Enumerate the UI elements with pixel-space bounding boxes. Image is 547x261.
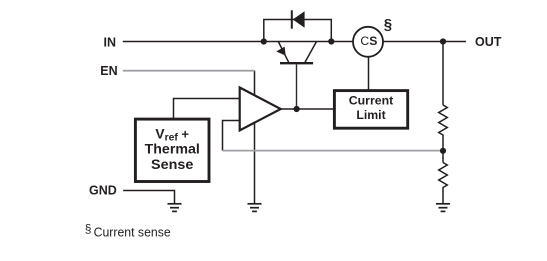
GND pin label	[89, 184, 117, 198]
OUT pin label	[475, 35, 502, 49]
wire OUT to divider	[442, 42, 444, 106]
wire diode branch	[264, 20, 332, 42]
wire base drive (gray)	[296, 64, 298, 109]
EN pin label	[100, 64, 117, 78]
block Current Limit	[334, 91, 407, 129]
footnote text	[94, 224, 171, 239]
wire CS to Current Limit	[368, 57, 370, 91]
svg-text:§: §	[85, 222, 92, 236]
node C (output / base drive junction)	[294, 106, 300, 112]
node B (collector / CS junction)	[328, 38, 334, 44]
svg-text:Current sense: Current sense	[94, 224, 171, 239]
ground (op-amp)	[248, 204, 262, 212]
IN pin label	[104, 36, 117, 50]
wire GND	[123, 191, 174, 204]
svg-text:CS: CS	[360, 34, 377, 48]
node D (feedback tap)	[440, 148, 446, 154]
wire CS to OUT	[383, 41, 466, 43]
svg-text:OUT: OUT	[475, 35, 502, 49]
transistor Q1 (PNP pass element)	[276, 42, 316, 64]
resistor R1	[439, 105, 448, 140]
svg-text:§: §	[384, 16, 392, 33]
current sense element CS	[353, 27, 383, 57]
svg-text:IN: IN	[104, 36, 117, 50]
wire R2 to ground	[442, 193, 444, 204]
svg-text:Sense: Sense	[151, 157, 194, 172]
svg-text:Thermal: Thermal	[145, 142, 200, 157]
wire IN rail	[123, 41, 353, 43]
ground (GND pin)	[168, 204, 182, 212]
wire EN (gray)	[123, 70, 255, 72]
footnote section mark	[85, 222, 92, 236]
wire R1 to tap	[442, 140, 444, 163]
svg-text:Limit: Limit	[356, 108, 385, 122]
node A (IN / emitter junction)	[261, 38, 267, 44]
wire feedback (gray)	[223, 150, 444, 152]
svg-text:Current: Current	[349, 94, 393, 108]
wire feedback input	[223, 121, 240, 151]
svg-text:GND: GND	[89, 184, 117, 198]
block Vref + Thermal Sense	[135, 119, 209, 181]
section mark by CS	[384, 16, 392, 33]
ground (divider)	[436, 204, 450, 212]
svg-text:EN: EN	[100, 64, 117, 78]
wire error amp output	[281, 108, 335, 110]
node OUT	[440, 38, 446, 44]
op-amp U1 (error amplifier)	[240, 88, 281, 131]
diode D1	[292, 10, 305, 28]
resistor R2	[439, 163, 448, 193]
wire enable / op-amp ground stem	[254, 71, 256, 204]
wire Vref to op-amp input	[174, 99, 240, 120]
